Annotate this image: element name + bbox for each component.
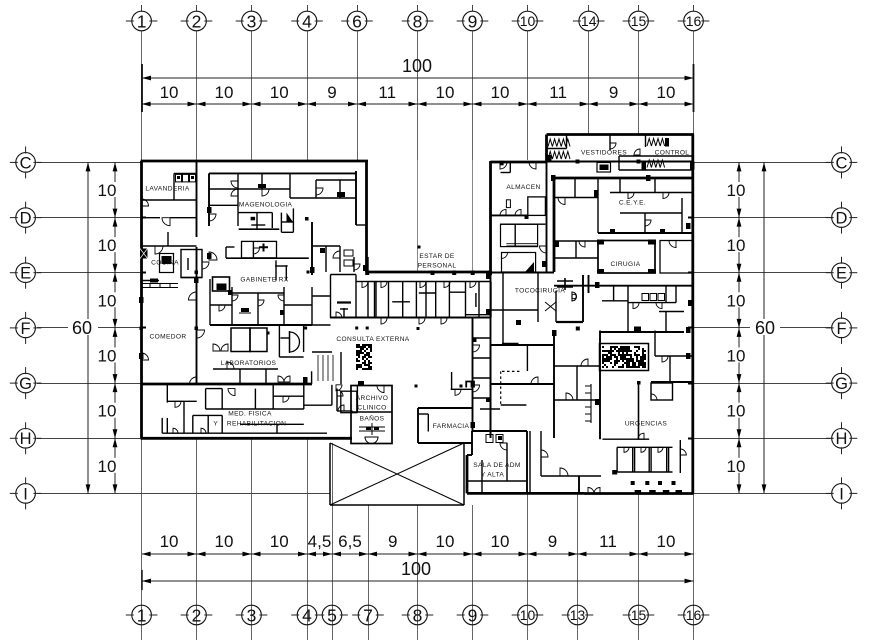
svg-text:Y ALTA: Y ALTA <box>481 472 505 479</box>
ceye mid walls <box>598 232 693 234</box>
banos fixtures <box>359 423 385 435</box>
lavanderia inner room <box>173 173 175 200</box>
vestidores lockers row 4 <box>647 160 665 168</box>
east narrow rooms <box>356 224 367 226</box>
svg-text:BAÑOS: BAÑOS <box>360 414 385 423</box>
svg-text:URGENCIAS: URGENCIAS <box>625 421 668 428</box>
corridor door arcs bottom <box>541 450 548 457</box>
grid line 8 through courtyard <box>417 160 419 271</box>
svg-text:C: C <box>836 154 848 172</box>
farmacia room <box>418 407 473 409</box>
grid bubble I left <box>16 484 36 504</box>
svg-text:Y: Y <box>213 421 218 428</box>
room 304-332 <box>331 385 333 405</box>
grid bubble 4 top <box>297 11 317 31</box>
grid bubble 10 top <box>518 11 538 31</box>
grid bubble 9 bottom <box>463 605 483 625</box>
vertical grid lines top set <box>141 5 143 11</box>
svg-text:SALA DE ADM: SALA DE ADM <box>473 462 520 469</box>
svg-text:10: 10 <box>98 402 117 421</box>
lavanderia door arc <box>142 199 149 206</box>
med fisica right upper rooms <box>272 385 274 409</box>
imagenologia top inner wall <box>209 172 356 174</box>
ceye west rooms <box>554 197 598 199</box>
corridor door arc east <box>540 246 547 253</box>
svg-text:C.E.Y.E.: C.E.Y.E. <box>619 200 646 207</box>
sala east wall <box>526 431 528 493</box>
svg-text:10: 10 <box>98 236 117 255</box>
grid bubble 1 bottom <box>132 605 152 625</box>
grid nubs on outer walls <box>688 217 694 219</box>
roomlet band west part <box>356 281 368 283</box>
mid room wall <box>141 245 197 247</box>
bottom band wall <box>141 437 352 440</box>
xray table gabinete <box>241 308 249 312</box>
grid line 9 through courtyard <box>472 160 474 271</box>
laboratorios lower walls <box>213 368 278 370</box>
farmacia inner <box>427 414 429 432</box>
right block east wall <box>691 135 694 494</box>
dots row <box>631 481 635 485</box>
svg-text:9: 9 <box>468 11 478 31</box>
svg-text:CLINICO: CLINICO <box>357 405 386 412</box>
svg-text:H: H <box>836 430 848 448</box>
svg-text:10: 10 <box>727 457 746 476</box>
vestidores top wall <box>547 133 695 136</box>
xray table cross <box>259 244 268 252</box>
cirugia side room <box>660 241 693 274</box>
corridor top wall <box>367 271 492 274</box>
grid bubble G left <box>16 373 36 393</box>
svg-text:9: 9 <box>468 605 478 625</box>
grid bubble 2 bottom <box>187 605 207 625</box>
cocina black fixture <box>140 249 148 259</box>
left block row G wall <box>141 383 312 386</box>
svg-text:5: 5 <box>327 605 337 625</box>
sala de adm west wall <box>466 455 469 493</box>
vestidores partitions <box>566 135 568 149</box>
patio diagonal 2 <box>330 443 464 505</box>
bottom segment dimension line <box>142 553 694 555</box>
grid bubble 5 bottom <box>322 605 342 625</box>
urgencias mid wall x638 <box>638 383 640 439</box>
grid bubble 3 top <box>242 11 262 31</box>
svg-text:4: 4 <box>302 11 312 31</box>
urgencias south wall <box>603 438 650 440</box>
west box inner bar <box>337 301 351 303</box>
grid bubble 8 bottom <box>408 605 428 625</box>
svg-text:6: 6 <box>352 11 362 31</box>
west box T fixture <box>343 308 345 317</box>
long wall y258 <box>226 257 309 259</box>
comedor west door <box>142 353 149 360</box>
svg-text:4: 4 <box>302 605 312 625</box>
east mid rooms x312-330 <box>312 295 331 297</box>
svg-text:ALMACEN: ALMACEN <box>506 184 540 191</box>
archivo clinico room <box>351 386 392 444</box>
svg-text:60: 60 <box>72 318 92 338</box>
sala fixtures <box>486 435 493 443</box>
svg-text:15: 15 <box>631 607 647 623</box>
svg-text:F: F <box>21 320 31 338</box>
svg-text:VESTIDORES: VESTIDORES <box>581 150 627 157</box>
svg-text:10: 10 <box>727 181 746 200</box>
svg-text:CIRUGIA: CIRUGIA <box>611 261 641 268</box>
grid bubble 6 top <box>347 11 367 31</box>
cirugia dark corners <box>597 240 604 245</box>
bottom wall door arcs <box>588 488 594 494</box>
cubicles right wall <box>679 440 681 473</box>
corridor vestibule stubs <box>353 257 355 272</box>
grid bubble 16 top <box>684 11 704 31</box>
svg-text:9: 9 <box>388 532 397 551</box>
svg-text:3: 3 <box>247 11 257 31</box>
grid bubble F left <box>16 318 36 338</box>
imagenologia door arcs to corridor <box>209 214 216 221</box>
patio west wall <box>329 443 331 505</box>
left segment dimension line 10s <box>114 162 116 493</box>
urgencias east rooms <box>654 331 656 357</box>
imagenologia west wall <box>208 173 210 226</box>
west rooms mid <box>554 257 598 259</box>
laboratorios toilet room <box>278 326 280 357</box>
svg-text:10: 10 <box>98 291 117 310</box>
svg-text:G: G <box>19 375 32 393</box>
med fisica left rooms upper <box>166 385 168 403</box>
inner block west wall <box>553 178 556 272</box>
mid cluster L wall <box>225 247 227 258</box>
grid bubble 16 bottom <box>684 605 704 625</box>
svg-text:11: 11 <box>549 83 567 102</box>
cocina counters <box>160 254 174 273</box>
grid bubble D right <box>832 208 852 228</box>
svg-text:6,5: 6,5 <box>338 532 362 551</box>
row D wall left column <box>141 217 160 219</box>
cirugia room <box>598 241 655 274</box>
svg-text:10: 10 <box>270 83 289 102</box>
door swings below band <box>381 318 387 324</box>
mid rooms partitions <box>613 286 615 301</box>
grid bubble F right <box>832 318 852 338</box>
jambs on corridor wall <box>365 271 369 276</box>
grid bubble 13 bottom <box>568 605 588 625</box>
svg-text:2: 2 <box>192 11 202 31</box>
comedor counter band <box>142 284 178 288</box>
svg-text:1: 1 <box>137 605 147 625</box>
bottom wall right block <box>584 492 694 495</box>
urgencias corridor west walls <box>599 331 601 440</box>
grid dot col13 <box>576 327 580 331</box>
svg-text:10: 10 <box>270 532 289 551</box>
svg-text:I: I <box>23 485 28 503</box>
grid bubble H right <box>832 429 852 449</box>
svg-text:E: E <box>836 265 847 283</box>
almacen door arcs <box>500 209 506 215</box>
lower door arc pair <box>278 376 284 382</box>
tococirugia top wall <box>491 272 555 274</box>
svg-text:10: 10 <box>491 83 510 102</box>
grid bubble 2 top <box>187 11 207 31</box>
svg-text:10: 10 <box>98 181 117 200</box>
right overall dimension 60 <box>763 162 765 493</box>
grid bubble D left <box>16 208 36 228</box>
bottom right cubicles <box>617 446 672 448</box>
svg-text:CONSULTA EXTERNA: CONSULTA EXTERNA <box>336 336 409 343</box>
svg-text:LAVANDERIA: LAVANDERIA <box>145 186 190 193</box>
big door D symbol <box>290 332 300 352</box>
rooms below right <box>275 260 277 280</box>
svg-text:MED. FISICA: MED. FISICA <box>228 411 272 418</box>
svg-text:11: 11 <box>378 83 396 102</box>
dark box below vestidores <box>597 163 611 173</box>
almacen lower room 2 <box>502 253 536 273</box>
almacen corridor wall <box>501 223 546 225</box>
grid bubble E right <box>832 263 852 283</box>
west top door arcs <box>500 162 507 169</box>
dark corner cubicles <box>612 470 617 475</box>
almacen right room <box>528 197 546 216</box>
svg-text:E: E <box>20 265 31 283</box>
svg-text:10: 10 <box>727 291 746 310</box>
med fisica lower-left rooms <box>161 418 163 433</box>
right segment dimension line 10s <box>738 162 740 493</box>
svg-text:10: 10 <box>491 532 510 551</box>
vestidores lockers row 1 <box>548 139 570 147</box>
svg-text:H: H <box>20 430 32 448</box>
svg-text:D: D <box>836 210 848 228</box>
grid bubble I right <box>832 484 852 504</box>
svg-text:9: 9 <box>609 83 618 102</box>
svg-text:10: 10 <box>436 532 455 551</box>
comedor east wall <box>196 247 198 384</box>
grid bubble 14 top <box>579 11 599 31</box>
med fisica big mid room <box>206 388 223 390</box>
svg-text:10: 10 <box>98 457 117 476</box>
grid bubble E left <box>16 263 36 283</box>
patio bottom wall <box>330 504 464 506</box>
gabinete east rooms <box>311 287 313 325</box>
row C wall under vestidores <box>547 161 695 163</box>
cocina room box <box>181 250 202 278</box>
small x closet <box>545 302 556 311</box>
svg-text:11: 11 <box>599 532 617 551</box>
med fisica lower mid wall <box>240 423 304 425</box>
almacen top-left small room <box>501 172 511 174</box>
svg-text:10: 10 <box>520 607 536 623</box>
consulta roomlet partitions <box>367 282 369 318</box>
bottom mid corridor <box>529 431 531 493</box>
svg-text:4,5: 4,5 <box>308 532 332 551</box>
svg-text:14: 14 <box>581 13 597 29</box>
imagenologia top mid rooms <box>261 173 263 189</box>
laboratorios box 1 <box>231 328 250 352</box>
svg-text:C: C <box>20 154 32 172</box>
dashed partition horizontal <box>502 370 522 372</box>
dark bracket fixture <box>466 382 474 388</box>
almacen east wall <box>546 162 548 272</box>
grid dots on row C wall <box>576 160 580 164</box>
consulta roomlet sub walls <box>392 301 410 303</box>
svg-text:REHABILITACION: REHABILITACION <box>227 421 286 428</box>
urgencias top right room <box>651 383 673 400</box>
dither block B border <box>600 344 649 371</box>
dither block A <box>356 344 372 370</box>
mid vertical corridor east wall <box>490 272 492 438</box>
svg-text:10: 10 <box>160 83 179 102</box>
svg-text:10: 10 <box>215 83 234 102</box>
svg-text:I: I <box>839 485 844 503</box>
almacen fixture <box>506 200 510 208</box>
svg-text:10: 10 <box>160 532 179 551</box>
bottom overall dimension 100 <box>142 580 694 582</box>
svg-text:10: 10 <box>657 532 676 551</box>
tococirugia block bottom wall <box>556 321 583 323</box>
svg-text:3: 3 <box>247 605 257 625</box>
svg-text:10: 10 <box>436 83 455 102</box>
patio diagonal 1 <box>330 443 464 505</box>
vertical grid lines bottom set <box>141 438 143 640</box>
svg-text:10: 10 <box>727 236 746 255</box>
xray room box <box>242 241 277 258</box>
grid bubble C right <box>832 153 852 173</box>
consulta west room box <box>330 275 332 319</box>
dashes row <box>635 490 642 495</box>
svg-text:TOCOCIRUGIA: TOCOCIRUGIA <box>515 288 566 295</box>
control lower box <box>619 155 694 157</box>
east rooms 332-357 <box>356 385 358 413</box>
svg-text:100: 100 <box>401 559 431 579</box>
sala bottom wall <box>467 492 527 495</box>
svg-text:8: 8 <box>413 11 423 31</box>
svg-text:FARMACIA: FARMACIA <box>433 423 470 430</box>
svg-text:13: 13 <box>570 607 586 623</box>
grid bubble 1 top <box>132 11 152 31</box>
consulta roomlets top wall <box>368 281 491 283</box>
mid vertical corridor west wall <box>472 318 474 432</box>
corridor room above farmacia <box>451 372 453 389</box>
svg-text:60: 60 <box>755 318 775 338</box>
mid lower rooms <box>600 331 684 333</box>
grid bubble H left <box>16 429 36 449</box>
vestidores west wall <box>545 135 548 163</box>
sala inner walls <box>481 460 483 493</box>
archivo west corridor bits <box>336 389 338 412</box>
vestidores lockers row 2 <box>548 152 570 160</box>
svg-text:8: 8 <box>413 605 423 625</box>
laboratorios west room arcs <box>213 344 220 351</box>
small walls near dashed <box>502 343 519 345</box>
top overall dimension 100 <box>142 77 694 79</box>
mid corridor verticals <box>588 275 590 293</box>
svg-text:100: 100 <box>402 56 432 76</box>
almacen bottom wall <box>491 214 529 216</box>
east wall x356 <box>355 171 357 225</box>
grid bubble 15 top <box>629 11 649 31</box>
sala top wall <box>472 430 527 432</box>
laboratorios box 2 <box>250 328 267 352</box>
grid bubble G right <box>832 373 852 393</box>
svg-text:G: G <box>835 375 848 393</box>
courtyard dots <box>304 327 307 330</box>
door jamb marks scattered <box>207 207 212 213</box>
tococirugia lower rooms <box>526 345 528 371</box>
svg-text:15: 15 <box>631 13 647 29</box>
cubicle row bottom wall <box>541 475 601 477</box>
gabinete extra partitions <box>210 304 232 306</box>
svg-text:7: 7 <box>363 605 373 625</box>
inner block top wall <box>554 177 693 180</box>
almacen lower room 1 <box>501 224 538 246</box>
dark corners vestidores <box>665 138 669 147</box>
outer wall left block east upper <box>365 161 368 272</box>
svg-text:CONTROL: CONTROL <box>655 150 690 157</box>
outer wall left block top <box>141 160 368 163</box>
imagenologia mid cluster upper <box>238 212 272 214</box>
tococirugia H fixtures <box>557 278 573 290</box>
svg-text:2: 2 <box>192 605 202 625</box>
grid bubble C left <box>16 153 36 173</box>
patio east wall <box>463 443 465 505</box>
svg-text:10: 10 <box>520 13 536 29</box>
grid bubble 10 bottom <box>518 605 538 625</box>
dither block B noise <box>602 346 646 368</box>
cocina bottom walls <box>181 277 202 279</box>
dark block mid room <box>634 327 641 333</box>
svg-text:10: 10 <box>98 347 117 366</box>
corridor cross walls <box>473 337 491 339</box>
imagenologia top right rooms <box>289 173 291 198</box>
svg-text:IMAGENOLOGIA: IMAGENOLOGIA <box>237 202 293 209</box>
svg-text:16: 16 <box>686 607 702 623</box>
tococirugia door symbol <box>572 292 577 301</box>
comedor wall dots <box>195 271 199 275</box>
grid bubble 9 top <box>463 11 483 31</box>
svg-text:10: 10 <box>727 347 746 366</box>
svg-text:9: 9 <box>548 532 557 551</box>
svg-text:16: 16 <box>686 13 702 29</box>
outer wall left block west <box>140 161 143 438</box>
archivo inner wall <box>351 411 392 413</box>
right block top wall west part <box>491 161 548 164</box>
svg-text:F: F <box>836 320 846 338</box>
grid bubble 4 bottom <box>297 605 317 625</box>
svg-text:COCINA: COCINA <box>151 260 179 267</box>
top segment dimension line <box>142 103 694 105</box>
lavanderia washers <box>176 174 182 182</box>
stair hatch small <box>318 355 333 381</box>
svg-text:ESTAR DE: ESTAR DE <box>419 253 455 260</box>
consulta roomlets bottom wall <box>330 317 491 319</box>
svg-text:10: 10 <box>215 532 234 551</box>
left overall dimension 60 <box>87 162 89 493</box>
dashed partition vertical <box>500 371 502 405</box>
svg-text:GABINETE RX: GABINETE RX <box>240 277 288 284</box>
svg-text:10: 10 <box>657 83 676 102</box>
imagenologia west rooms <box>209 188 238 190</box>
ceye top small rooms <box>619 178 621 193</box>
svg-text:LABORATORIOS: LABORATORIOS <box>221 360 277 367</box>
grid bubble 15 bottom <box>629 605 649 625</box>
gabinete rx partitions <box>209 279 211 325</box>
grid bubble 7 bottom <box>358 605 378 625</box>
east rooms fixtures <box>344 250 353 256</box>
grid bubble 3 bottom <box>242 605 262 625</box>
mid cluster right rooms <box>280 213 282 233</box>
right mid band walls <box>554 285 693 287</box>
svg-text:D: D <box>20 210 32 228</box>
svg-text:PERSONAL: PERSONAL <box>418 263 457 270</box>
rung fixture left <box>585 384 591 423</box>
